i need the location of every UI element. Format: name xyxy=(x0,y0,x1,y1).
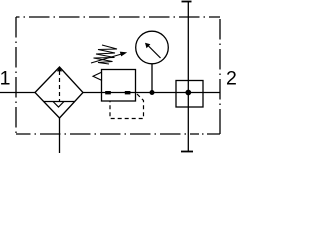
svg-text:2: 2 xyxy=(226,68,237,90)
svg-text:1: 1 xyxy=(0,68,10,90)
